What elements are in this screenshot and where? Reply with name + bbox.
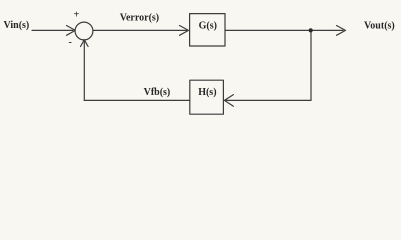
block H(s)	[190, 80, 224, 114]
node: output junction dot	[309, 28, 313, 32]
arrowhead up into summing junction	[81, 40, 89, 47]
arrowhead into H(s)	[224, 95, 233, 107]
wire: summing junction to G(s)	[93, 29, 187, 31]
wire: G(s) to output arrow	[225, 29, 343, 31]
arrowhead at Vout	[337, 26, 346, 36]
svg-text:H(s): H(s)	[198, 87, 216, 98]
arrowhead into summing junction	[67, 26, 76, 36]
wire: feedback horizontal into H(s) right side	[226, 99, 311, 101]
svg-text:Vfb(s): Vfb(s)	[144, 87, 171, 98]
summing junction circle	[75, 22, 93, 40]
svg-text:+: +	[74, 10, 80, 21]
wire: input Vin to summing junction	[32, 29, 73, 31]
wire: feedback vertical up to summing junction	[83, 41, 85, 100]
block G(s)	[190, 14, 225, 46]
svg-text:Vin(s): Vin(s)	[4, 20, 30, 31]
wire: feedback vertical drop from output node	[310, 30, 312, 100]
svg-text:Vout(s): Vout(s)	[364, 21, 395, 32]
arrowhead into G(s)	[180, 26, 189, 36]
svg-text:G(s): G(s)	[199, 20, 217, 31]
svg-text:-: -	[69, 37, 72, 48]
wire: H(s) output to left	[84, 99, 190, 101]
svg-text:Verror(s): Verror(s)	[120, 13, 159, 24]
